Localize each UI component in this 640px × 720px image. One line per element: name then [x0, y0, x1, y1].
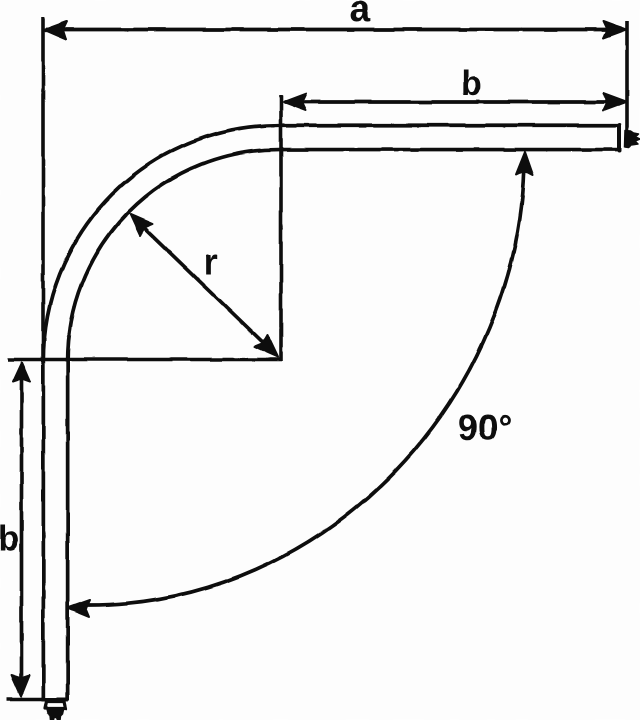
dimension line a: [46, 28, 624, 32]
arrowhead b left: [284, 94, 307, 111]
arrowhead a right: [603, 21, 626, 38]
tube bottom collar: [45, 702, 67, 709]
arrowhead b-left down: [12, 676, 30, 697]
arrowhead b right: [603, 94, 626, 111]
tube body (90-degree bend, drawn as thick black stroke with white core): [55, 137, 619, 700]
arrowhead b-left up: [13, 363, 31, 383]
svg-text:b: b: [0, 520, 19, 558]
extension line left (for dimension a): [41, 17, 45, 360]
arrowhead r upper: [130, 214, 153, 236]
tube right end connector (black threaded blob): [625, 131, 640, 148]
dimension line b left: [20, 365, 24, 694]
arrowhead r lower: [255, 335, 279, 357]
tube right end cap: [617, 125, 621, 151]
dimension line b top: [284, 100, 624, 104]
svg-text:b: b: [461, 65, 482, 103]
arrowhead 90 arc left (pointing left at tube): [68, 600, 91, 617]
dimension arrow r (double headed, radius of bend): [135, 219, 274, 353]
extension line right (for dimensions a and b): [625, 21, 629, 146]
tube bottom threaded tip (black blob): [47, 710, 64, 720]
arrowhead a left: [44, 22, 67, 40]
svg-text:a: a: [349, 0, 371, 30]
extension line horizontal (through bend center): [8, 358, 282, 362]
arrowhead 90 arc top (pointing up at tube): [516, 152, 533, 175]
extension line middle vertical (from b dimension to bend center): [279, 95, 283, 361]
svg-text:90°: 90°: [458, 407, 512, 448]
tube bottom end cap: [43, 698, 67, 702]
extension tick bottom (for dimension b left): [7, 698, 45, 702]
svg-text:r: r: [203, 242, 218, 284]
90-degree annotation arc: [87, 156, 525, 605]
